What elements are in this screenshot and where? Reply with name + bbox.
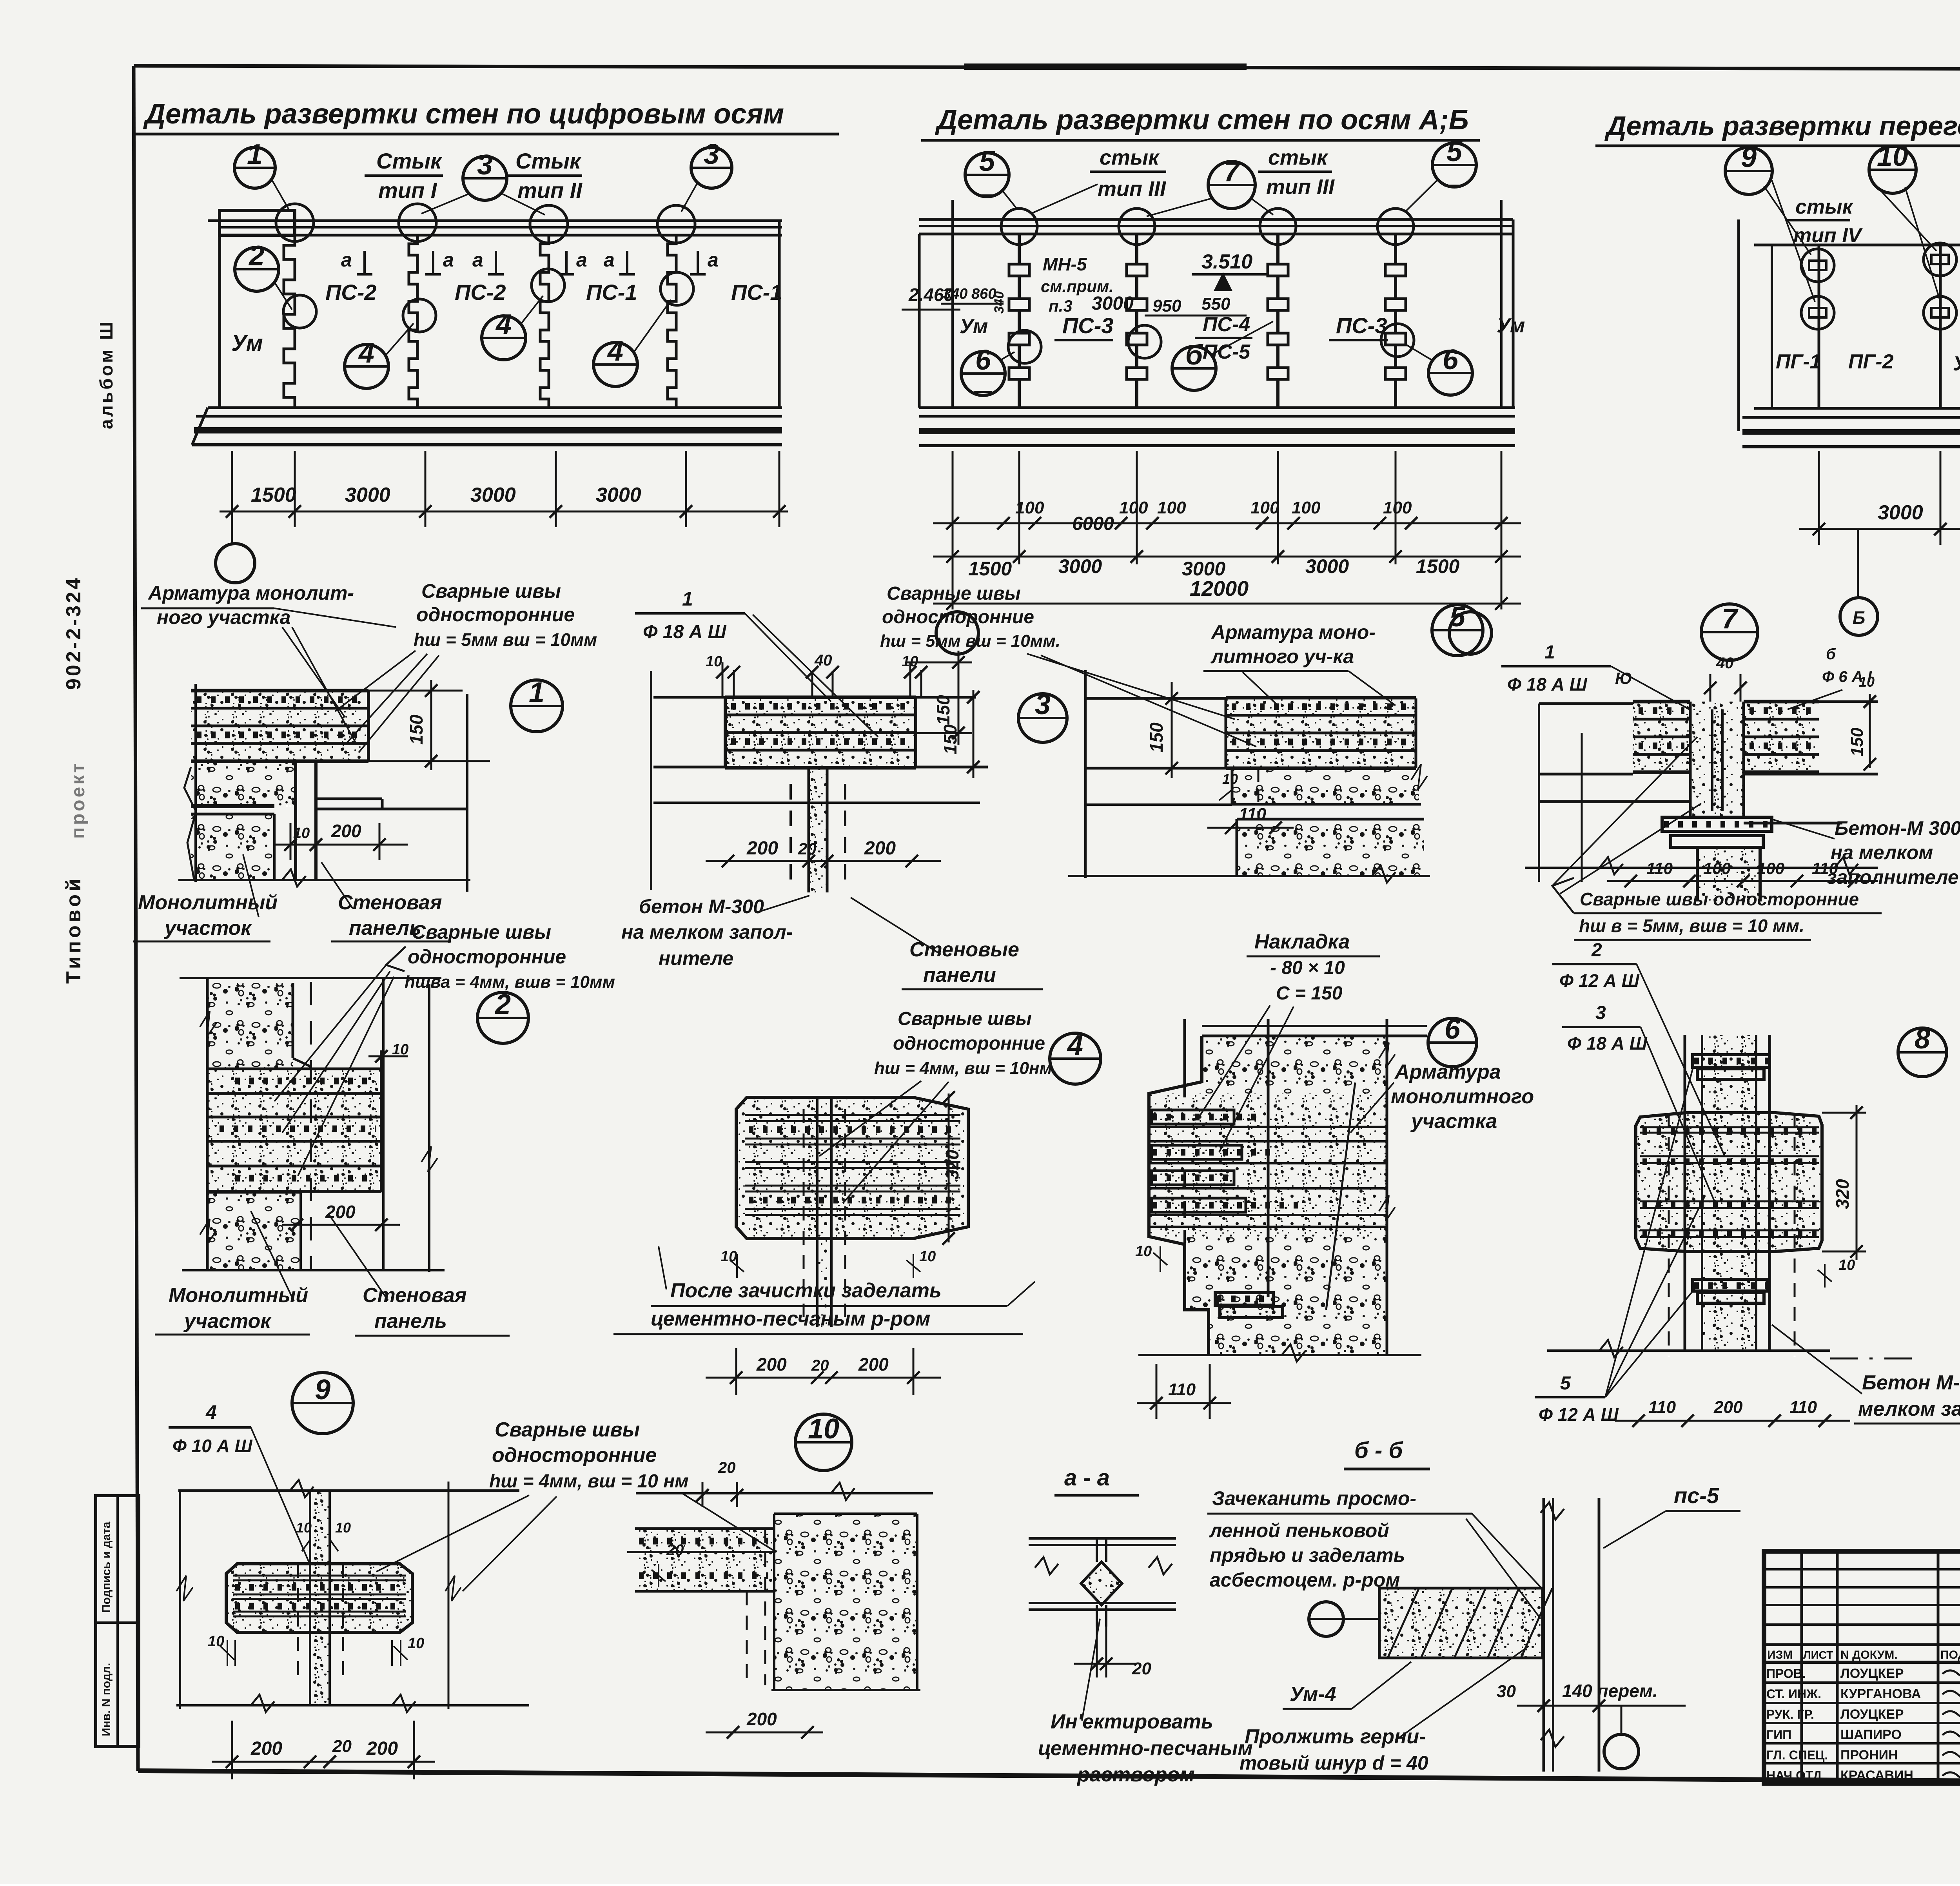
- svg-text:Ю: Ю: [1615, 669, 1632, 687]
- svg-text:1: 1: [247, 139, 263, 170]
- svg-text:После зачистки заделать: После зачистки заделать: [670, 1279, 942, 1302]
- svg-text:прядью и заделать: прядью и заделать: [1210, 1544, 1405, 1566]
- detail 3 joint stem below: [809, 767, 827, 892]
- detail 6 hatch band rows with plates: [1149, 1126, 1387, 1128]
- svg-text:—: —: [977, 183, 997, 205]
- svg-text:Деталь развертки стен по ци: Деталь развертки стен по цифровым осям: [143, 98, 784, 130]
- svg-text:10: 10: [1135, 1243, 1152, 1260]
- svg-text:литного уч-ка: литного уч-ка: [1210, 646, 1354, 667]
- svg-text:а: а: [472, 249, 483, 271]
- detail 4 dim 320: [948, 1094, 950, 1242]
- detail 1 circle: [511, 680, 563, 732]
- section a-a dim 20: [1074, 1663, 1137, 1665]
- svg-text:3000: 3000: [1092, 293, 1134, 314]
- svg-text:100: 100: [1015, 498, 1044, 517]
- detail 7 slab right part: [1744, 702, 1819, 772]
- detail 2 dim 200: [282, 1224, 400, 1226]
- title block signatures squiggles: [1942, 1669, 1960, 1677]
- detail 3 left guide: [650, 671, 652, 890]
- svg-text:Деталь развертки стен по о: Деталь развертки стен по осям А;Б: [935, 104, 1469, 136]
- svg-text:7: 7: [1722, 603, 1739, 635]
- svg-text:товый шнур d = 40: товый шнур d = 40: [1240, 1752, 1428, 1774]
- svg-text:цементно-песчаным: цементно-песчаным: [1038, 1737, 1253, 1760]
- svg-text:б: б: [1185, 339, 1204, 371]
- detail 3 dim line 200 20 200: [706, 860, 941, 862]
- svg-text:панель: панель: [349, 917, 421, 939]
- elevation2 axis circle 5b: [1432, 143, 1476, 187]
- detail 9 bottom line: [176, 1704, 529, 1706]
- svg-text:Ум-4: Ум-4: [1953, 352, 1960, 375]
- section a-a band: [1029, 1537, 1176, 1540]
- svg-text:панель: панель: [374, 1310, 447, 1333]
- svg-text:10: 10: [1877, 141, 1908, 172]
- svg-text:тип IV: тип IV: [1793, 224, 1863, 247]
- svg-text:110: 110: [1168, 1380, 1196, 1399]
- svg-text:200: 200: [858, 1354, 889, 1375]
- title block outer frame: [1764, 1551, 1960, 1783]
- elevation2 top beam: [919, 218, 1513, 221]
- svg-text:Стеновая: Стеновая: [338, 891, 442, 914]
- svg-text:КРАСАВИН: КРАСАВИН: [1840, 1768, 1913, 1783]
- elevation2 wall edges: [951, 200, 954, 408]
- svg-text:асбестоцем. р-ром: асбестоцем. р-ром: [1210, 1569, 1400, 1591]
- svg-text:110: 110: [1648, 1398, 1676, 1417]
- svg-text:1500: 1500: [968, 558, 1012, 580]
- elevation1 wall outline: [218, 235, 221, 408]
- svg-text:3.510: 3.510: [1201, 250, 1252, 273]
- svg-text:ПОДПИСЬ: ПОДПИСЬ: [1940, 1648, 1960, 1661]
- svg-text:ЛОУЦКЕР: ЛОУЦКЕР: [1840, 1707, 1904, 1722]
- elevation1 axis circle 1: [234, 147, 275, 188]
- svg-text:100: 100: [1292, 498, 1321, 517]
- svg-text:12000: 12000: [1190, 577, 1249, 600]
- svg-text:hш = 4мм, вш = 10нм.: hш = 4мм, вш = 10нм.: [874, 1059, 1057, 1078]
- detail 10 bottom dim 200: [706, 1732, 823, 1734]
- svg-text:панели: панели: [923, 964, 996, 987]
- section b-b axis circle: [1621, 1706, 1622, 1734]
- elevation2 dim line 100s: [933, 522, 1521, 524]
- detail 5 dashed joint below: [1258, 770, 1259, 817]
- elevation3 dim extensions: [1818, 451, 1820, 545]
- svg-text:ЛИСТ: ЛИСТ: [1803, 1649, 1833, 1661]
- svg-text:стык: стык: [1100, 146, 1160, 169]
- title block upper small rows: [1764, 1568, 1960, 1570]
- detail 8 dashed guide lines: [1668, 1113, 1670, 1356]
- svg-text:ИЗМ: ИЗМ: [1767, 1648, 1793, 1661]
- svg-text:20: 20: [666, 1541, 684, 1559]
- svg-text:200: 200: [746, 1709, 777, 1729]
- detail 6 circle: [1428, 1018, 1477, 1067]
- svg-text:6: 6: [975, 345, 991, 376]
- detail 1 dim 150: [430, 680, 432, 770]
- elevation1 panel joint seam 3: [540, 235, 549, 408]
- svg-text:100: 100: [1757, 859, 1784, 878]
- detail 5 circle: [1432, 605, 1483, 656]
- elevation1 axis circle 3b: [691, 147, 732, 188]
- svg-text:ПС-3: ПС-3: [1062, 313, 1114, 338]
- svg-text:Ум-4: Ум-4: [1290, 1683, 1336, 1706]
- detail 3 slab section: [725, 697, 916, 768]
- detail 6 concrete body: [1202, 1037, 1387, 1094]
- detail 7 left extension lines: [1539, 702, 1633, 705]
- detail 6 inner vertical lines: [1267, 1019, 1270, 1297]
- svg-text:а: а: [708, 249, 719, 271]
- svg-text:участка: участка: [1410, 1110, 1497, 1133]
- svg-text:3: 3: [704, 139, 719, 170]
- elevation1 panel joint seam 4: [668, 235, 676, 408]
- svg-text:1500: 1500: [251, 484, 296, 506]
- detail 10 concrete block right: [774, 1514, 917, 1690]
- elevation3 axis circle B: [1857, 529, 1859, 596]
- svg-text:ПС-3: ПС-3: [1336, 313, 1387, 338]
- svg-text:Зачеканить просмо-: Зачеканить просмо-: [1212, 1487, 1416, 1509]
- svg-text:3: 3: [1595, 1003, 1606, 1023]
- detail 10 joint dashes: [764, 1529, 766, 1685]
- svg-text:ного участка: ного участка: [157, 606, 290, 628]
- svg-text:3000: 3000: [470, 484, 516, 506]
- detail 3 dim 150 right side: [906, 662, 972, 664]
- elevation3 top line: [1754, 244, 1960, 247]
- detail 1 left guide line: [194, 684, 197, 882]
- elevation1 panel joint seam 2: [409, 235, 417, 408]
- svg-text:hш = 5мм вш = 10мм.: hш = 5мм вш = 10мм.: [880, 631, 1060, 651]
- svg-text:550: 550: [1201, 294, 1230, 314]
- detail 6 right edge: [1386, 1019, 1388, 1355]
- detail 9 dim line 200 20 200: [212, 1761, 435, 1763]
- svg-text:на мелком запол-: на мелком запол-: [621, 921, 793, 943]
- svg-text:бетон М-300: бетон М-300: [639, 896, 764, 918]
- left margin stamp strip box: [96, 1496, 139, 1746]
- detail 10 left slab: [635, 1529, 774, 1591]
- svg-text:Сварные швы: Сварные швы: [412, 921, 551, 943]
- svg-text:340: 340: [992, 291, 1007, 314]
- svg-text:Ф 18 А Ш: Ф 18 А Ш: [1507, 674, 1588, 695]
- svg-text:3000: 3000: [345, 484, 390, 506]
- svg-text:1: 1: [1544, 642, 1555, 663]
- svg-text:3: 3: [1035, 689, 1051, 720]
- detail 2 right panel edge: [380, 1050, 383, 1192]
- svg-text:40: 40: [1716, 655, 1734, 672]
- svg-text:20: 20: [332, 1737, 352, 1756]
- svg-text:100: 100: [1119, 498, 1148, 517]
- elevation3 base band: [1754, 407, 1960, 410]
- svg-text:1500: 1500: [1416, 555, 1459, 577]
- elevation2 dim line 12000: [933, 603, 1521, 605]
- svg-text:Стеновые: Стеновые: [909, 938, 1019, 961]
- svg-text:110: 110: [1646, 859, 1673, 878]
- detail 8 top plates: [1693, 1055, 1769, 1067]
- svg-text:стык: стык: [1795, 196, 1854, 218]
- svg-text:30: 30: [1497, 1682, 1516, 1701]
- detail 7 slab left part: [1633, 702, 1690, 772]
- svg-text:150: 150: [406, 715, 426, 745]
- svg-text:раствором: раствором: [1076, 1763, 1195, 1786]
- elevation2 dim line main: [933, 556, 1521, 558]
- svg-text:2: 2: [248, 240, 265, 272]
- detail 5 lower guide lines: [1085, 803, 1232, 806]
- svg-text:902-2-324: 902-2-324: [62, 576, 85, 690]
- svg-text:2: 2: [494, 989, 511, 1020]
- svg-text:150: 150: [940, 724, 960, 754]
- svg-text:4: 4: [607, 335, 623, 367]
- detail 7 bottom line: [1525, 867, 1878, 869]
- detail 8 dims 110 200 110: [1615, 1420, 1850, 1422]
- detail 8 dim 320: [1856, 1105, 1858, 1260]
- svg-text:110: 110: [1239, 805, 1267, 824]
- detail 6 top slab lines: [1202, 1025, 1427, 1027]
- detail 9 side verticals: [179, 1491, 181, 1709]
- svg-text:2: 2: [1591, 940, 1602, 961]
- svg-text:10: 10: [1859, 674, 1875, 690]
- detail 5 dim 110: [1207, 827, 1294, 829]
- svg-text:Бетон М-300 на: Бетон М-300 на: [1862, 1371, 1960, 1394]
- svg-text:150: 150: [933, 695, 953, 725]
- elevation2 detail circle 6a: [961, 352, 1005, 395]
- svg-text:20: 20: [798, 840, 817, 858]
- svg-text:участок: участок: [183, 1310, 272, 1333]
- svg-text:ПРОВ.: ПРОВ.: [1766, 1667, 1806, 1681]
- title block signature rows: [1764, 1681, 1960, 1684]
- svg-text:односторонние: односторонние: [492, 1444, 657, 1467]
- elevation1 bottom axis circle: [231, 527, 233, 543]
- detail 10 circle: [795, 1414, 852, 1471]
- svg-text:б - б: б - б: [1354, 1438, 1403, 1463]
- svg-text:10: 10: [706, 653, 722, 670]
- detail 2 top guide line: [180, 977, 441, 979]
- detail 6 dim 110: [1137, 1402, 1231, 1404]
- elevation2 axis circle 5a: [965, 153, 1009, 197]
- detail 1 slab section: [191, 691, 368, 761]
- svg-text:10: 10: [919, 1248, 936, 1265]
- svg-text:200: 200: [366, 1738, 398, 1759]
- svg-text:Ин'ектировать: Ин'ектировать: [1051, 1710, 1213, 1733]
- svg-text:Ф 10 А Ш: Ф 10 А Ш: [172, 1436, 253, 1456]
- detail 5 lower band 3: [1237, 819, 1424, 876]
- svg-text:7: 7: [1224, 156, 1241, 187]
- elevation2 axis circle 7: [1208, 161, 1255, 209]
- svg-text:10: 10: [1838, 1257, 1855, 1273]
- svg-text:4: 4: [1067, 1030, 1083, 1061]
- svg-text:см.прим.: см.прим.: [1041, 277, 1114, 296]
- detail 10 top line: [636, 1492, 933, 1494]
- svg-text:а: а: [443, 249, 454, 271]
- svg-text:Стык: Стык: [515, 149, 582, 173]
- svg-text:Подпись и дата: Подпись и дата: [100, 1521, 113, 1613]
- section b-b hatched bar: [1379, 1588, 1543, 1658]
- svg-text:б: б: [1826, 646, 1836, 663]
- detail 7 right extension lines: [1819, 700, 1878, 703]
- svg-text:Бетон-М 300: Бетон-М 300: [1835, 817, 1960, 839]
- svg-text:1: 1: [682, 588, 693, 610]
- svg-text:Инв. N подл.: Инв. N подл.: [100, 1663, 113, 1736]
- svg-text:110: 110: [1789, 1398, 1817, 1417]
- svg-text:- 80 × 10: - 80 × 10: [1270, 958, 1345, 978]
- elevation2 dim extensions: [952, 451, 954, 564]
- svg-text:9: 9: [1741, 142, 1757, 173]
- svg-text:200: 200: [250, 1738, 282, 1759]
- svg-text:НАЧ.ОТД.: НАЧ.ОТД.: [1766, 1768, 1825, 1783]
- svg-text:—: —: [974, 380, 993, 401]
- svg-text:Сварные швы: Сварные швы: [887, 583, 1021, 604]
- svg-text:заполнителе: заполнителе: [1827, 866, 1959, 888]
- detail 6 bottom plates: [1215, 1293, 1273, 1305]
- svg-text:Деталь развертки перегородок: Деталь развертки перегородок: [1604, 111, 1960, 141]
- svg-text:КУРГАНОВА: КУРГАНОВА: [1840, 1687, 1921, 1701]
- svg-text:5: 5: [1446, 136, 1463, 167]
- title block header row: [1764, 1643, 1960, 1646]
- detail 7 center joint strip: [1690, 702, 1744, 817]
- detail 2 dashed joint axis: [310, 982, 312, 1270]
- svg-text:односторонние: односторонние: [882, 607, 1034, 627]
- svg-text:8: 8: [1915, 1023, 1930, 1055]
- detail 2 right guide vertical: [428, 984, 430, 1272]
- svg-text:С = 150: С = 150: [1276, 983, 1343, 1004]
- svg-text:а: а: [604, 249, 615, 271]
- svg-text:ПРОНИН: ПРОНИН: [1840, 1748, 1898, 1763]
- svg-text:150: 150: [1146, 722, 1167, 753]
- detail 3 circle: [1018, 694, 1067, 742]
- svg-text:20: 20: [1132, 1659, 1151, 1678]
- detail 2 monolith lower block: [207, 1192, 301, 1270]
- svg-text:1: 1: [529, 677, 544, 708]
- svg-text:5: 5: [1560, 1373, 1571, 1394]
- detail 8 bottom plates: [1693, 1279, 1767, 1291]
- detail 4 circle: [1050, 1033, 1101, 1084]
- svg-text:5: 5: [979, 146, 995, 177]
- elevation2 axis circles bottom: [952, 564, 954, 609]
- svg-text:hш в = 5мм, вшв = 10 мм.: hш в = 5мм, вшв = 10 мм.: [1579, 916, 1804, 936]
- svg-text:Сварные швы: Сварные швы: [495, 1418, 640, 1441]
- svg-text:ШАПИРО: ШАПИРО: [1840, 1727, 1902, 1742]
- svg-text:320: 320: [1832, 1179, 1853, 1209]
- svg-text:а: а: [341, 249, 352, 271]
- svg-text:нителе: нителе: [659, 947, 733, 969]
- svg-text:ПС-1: ПС-1: [586, 280, 637, 305]
- svg-text:Ф 18 А Ш: Ф 18 А Ш: [1567, 1033, 1648, 1054]
- detail 2 monolith upper block: [207, 983, 293, 1069]
- svg-text:односторонние: односторонние: [408, 946, 566, 968]
- thick scan segments top border: [964, 63, 1247, 70]
- svg-text:ПС-4: ПС-4: [1203, 313, 1250, 336]
- svg-text:Ум: Ум: [231, 330, 263, 356]
- detail 9 circle: [292, 1373, 353, 1434]
- detail 7 wall below: [1696, 847, 1699, 901]
- svg-text:тип III: тип III: [1266, 175, 1335, 199]
- svg-text:10: 10: [335, 1520, 351, 1536]
- svg-text:Сварные швы: Сварные швы: [421, 580, 561, 602]
- svg-text:п.3: п.3: [1049, 297, 1073, 315]
- svg-text:ПГ-2: ПГ-2: [1848, 350, 1894, 373]
- svg-text:9: 9: [315, 1374, 330, 1405]
- detail 7 dims 110 100 100 110: [1607, 880, 1878, 882]
- detail 1 monolith block lower: [191, 814, 275, 880]
- svg-text:100: 100: [1703, 859, 1731, 878]
- elevation1 detail circle 2: [235, 247, 279, 291]
- detail 7 circle: [1701, 604, 1758, 660]
- detail 6 left stepped profile: [1149, 1036, 1209, 1355]
- detail 8 central joint strip: [1702, 1035, 1756, 1351]
- svg-text:10: 10: [408, 1635, 424, 1652]
- detail 1 wall below: [294, 761, 297, 880]
- svg-text:hш = 5мм вш = 10мм: hш = 5мм вш = 10мм: [414, 629, 597, 650]
- svg-text:200: 200: [331, 821, 361, 841]
- elevation2 base band: [919, 406, 1515, 409]
- detail 9 center strip: [310, 1491, 330, 1704]
- section b-b panel verticals: [1543, 1498, 1545, 1772]
- svg-text:4: 4: [495, 309, 512, 340]
- svg-text:ГЛ. СПЕЦ.: ГЛ. СПЕЦ.: [1766, 1748, 1828, 1762]
- svg-text:Ф 18 А Ш: Ф 18 А Ш: [643, 622, 727, 642]
- svg-text:3000: 3000: [596, 484, 641, 506]
- svg-text:Стык: Стык: [376, 149, 443, 173]
- svg-text:3000: 3000: [1182, 558, 1225, 580]
- svg-text:а - а: а - а: [1064, 1465, 1110, 1491]
- elevation1 dimension extension lines: [231, 451, 233, 527]
- detail 1 dims 10 200: [274, 844, 408, 846]
- svg-text:10: 10: [808, 1413, 839, 1445]
- svg-text:Типовой: Типовой: [62, 876, 85, 984]
- detail 3 lower ledge line: [653, 802, 980, 804]
- detail 9 top line: [178, 1489, 519, 1492]
- detail 7 nakladka plates: [1662, 817, 1772, 831]
- elevation2 joint lines: [1018, 235, 1021, 408]
- sheet border frame: [134, 66, 1960, 70]
- elevation2 section bubble b: [1172, 346, 1216, 390]
- svg-text:ПС-2: ПС-2: [455, 280, 506, 305]
- svg-text:6: 6: [1445, 1014, 1461, 1045]
- svg-text:340: 340: [943, 286, 967, 302]
- title block left grid verticals: [1800, 1551, 1803, 1783]
- elevation2 joint bubbles top: [1001, 209, 1037, 245]
- svg-text:ПС-1: ПС-1: [731, 280, 782, 305]
- elevation1 panel joint PS seam 1: [284, 235, 295, 408]
- svg-text:100: 100: [1250, 498, 1279, 517]
- detail 6 diagonal line: [1326, 1083, 1355, 1310]
- elevation1 dimension line: [220, 511, 788, 513]
- svg-text:цементно-песчаным р-ром: цементно-песчаным р-ром: [651, 1308, 930, 1330]
- detail 6 bottom line: [1138, 1354, 1421, 1356]
- detail 5 lower band 2: [1232, 769, 1419, 804]
- svg-text:200: 200: [325, 1202, 356, 1222]
- elevation1 top beam: [208, 219, 782, 222]
- elevation1 axis circle 3a: [463, 156, 507, 200]
- detail 2 bottom guide line: [182, 1269, 445, 1271]
- svg-text:3: 3: [477, 149, 493, 181]
- svg-text:Б: Б: [1853, 608, 1866, 628]
- svg-text:320: 320: [942, 1150, 962, 1180]
- svg-text:а: а: [576, 249, 587, 271]
- svg-text:200: 200: [864, 838, 896, 859]
- svg-text:РУК. ГР.: РУК. ГР.: [1766, 1707, 1814, 1721]
- elevation3 axis circle 10: [1869, 146, 1916, 193]
- detail 8 barrel block: [1636, 1113, 1822, 1251]
- svg-text:тип III: тип III: [1098, 177, 1166, 201]
- svg-text:200: 200: [756, 1354, 787, 1375]
- elevation2 detail circle 6b: [1428, 351, 1472, 395]
- svg-text:150: 150: [1847, 727, 1867, 756]
- detail 2 circle: [477, 992, 528, 1043]
- svg-text:hш = 4мм, вш = 10 нм: hш = 4мм, вш = 10 нм: [489, 1471, 689, 1492]
- detail 4 center joint strip: [817, 1097, 831, 1327]
- svg-text:3000: 3000: [1058, 555, 1102, 577]
- svg-text:4: 4: [358, 337, 374, 369]
- svg-text:ГИП: ГИП: [1766, 1728, 1791, 1742]
- detail 5 slab section: [1085, 697, 1226, 700]
- svg-text:3000: 3000: [1878, 501, 1923, 524]
- elevation3 verticals: [1771, 245, 1773, 408]
- svg-text:6: 6: [1443, 344, 1459, 375]
- svg-text:альбом Ш: альбом Ш: [96, 319, 116, 429]
